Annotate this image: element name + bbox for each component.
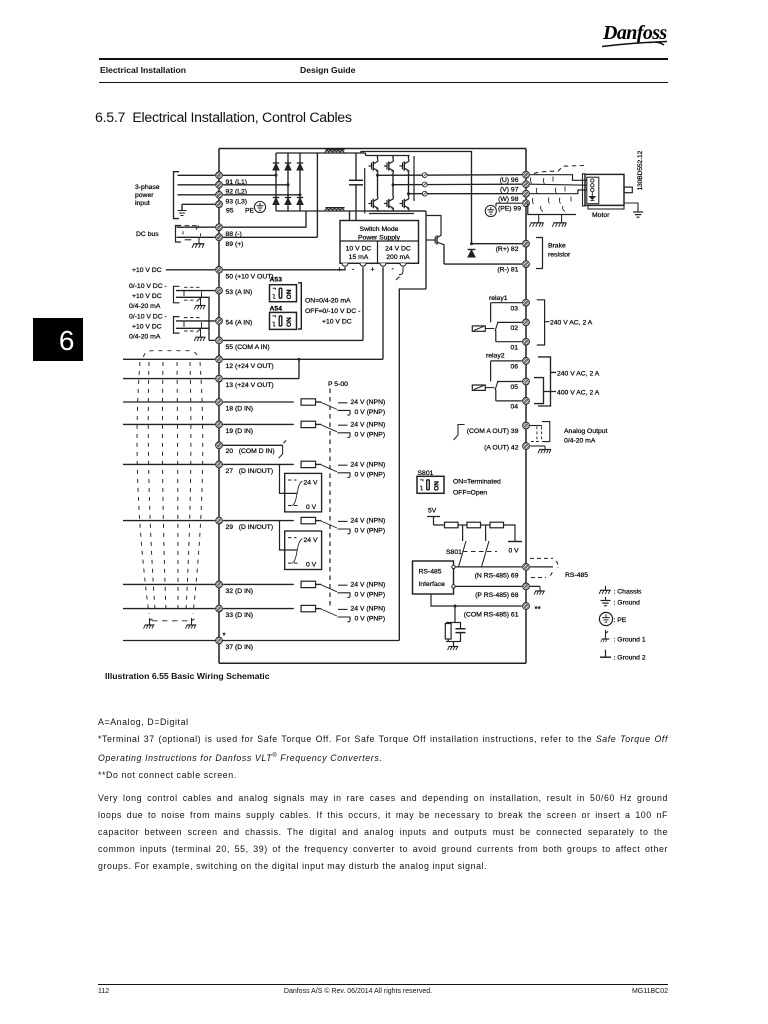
wire 32 to resistor xyxy=(223,583,294,585)
motor cable wire U xyxy=(530,175,587,181)
wire 27 to resistor xyxy=(223,463,294,465)
svg-text:: Ground: : Ground xyxy=(614,600,641,607)
wire 54 return xyxy=(176,327,209,329)
svg-text:0/-10 V DC -: 0/-10 V DC - xyxy=(129,314,167,321)
switch lever S801 a xyxy=(459,541,467,567)
svg-text:DC bus: DC bus xyxy=(136,231,159,238)
Danfoss logo xyxy=(601,19,676,51)
svg-text:24 V (NPN): 24 V (NPN) xyxy=(351,421,386,428)
svg-text:PE: PE xyxy=(245,207,255,214)
S801 dashed link xyxy=(463,551,497,553)
svg-text:: Ground 2: : Ground 2 xyxy=(614,655,646,662)
legend ground2 symbol xyxy=(600,650,611,658)
svg-text:29 (D IN/OUT): 29 (D IN/OUT) xyxy=(226,524,274,531)
legend chassis symbol xyxy=(599,586,611,594)
switch A54 xyxy=(270,312,297,329)
PE symbol at terminal 95 xyxy=(254,201,265,212)
motor ground wire xyxy=(624,203,638,212)
svg-text:15 mA: 15 mA xyxy=(349,254,369,261)
wire 32 resistor to switch xyxy=(316,583,322,585)
svg-text:130BD552.12: 130BD552.12 xyxy=(637,150,644,190)
footer left xyxy=(98,988,109,995)
NPN contact 18 xyxy=(338,402,348,404)
RS-485 cable ground xyxy=(534,586,545,594)
wire 88 xyxy=(177,226,215,228)
terminal 42 xyxy=(523,443,530,450)
hook 20 xyxy=(279,440,287,458)
input bracket xyxy=(174,172,180,219)
row 33: wire left xyxy=(123,608,215,610)
IGBT Q2 xyxy=(384,159,393,173)
svg-text:Power Supply: Power Supply xyxy=(358,234,401,241)
wire 93 to rectifier leg3 xyxy=(223,194,300,196)
tap 2 down xyxy=(485,525,487,541)
caption xyxy=(105,671,270,681)
NPN contact 19 xyxy=(338,424,348,426)
terminal 88 xyxy=(216,224,223,231)
motor terminal dots xyxy=(591,179,594,192)
wire 91 to rectifier leg1 xyxy=(223,174,276,176)
wire 27 resistor to switch xyxy=(316,463,322,465)
stub 29 to pulse box xyxy=(280,521,298,550)
wire 18 resistor to switch xyxy=(316,401,322,403)
wire 05 xyxy=(497,381,522,383)
svg-text:RS-485: RS-485 xyxy=(419,568,442,575)
motor box ground arrow xyxy=(590,192,596,201)
inverter top rail xyxy=(366,153,410,156)
motor ground xyxy=(633,212,643,217)
screen dashes 53 bottom + tail xyxy=(184,299,196,301)
5V tap xyxy=(427,517,445,526)
svg-text:Interface: Interface xyxy=(419,581,446,588)
hook 39 xyxy=(454,425,465,441)
terminal 37 xyxy=(216,637,223,644)
svg-text:RS-485: RS-485 xyxy=(565,572,588,579)
motor cable screen strands xyxy=(530,177,571,212)
svg-text:: Ground 1: : Ground 1 xyxy=(614,637,646,644)
ground on 89 wire xyxy=(192,237,205,248)
terminal 33 xyxy=(216,605,223,612)
chapter tab 6 xyxy=(33,318,83,361)
diagonal tick wire 88 xyxy=(196,226,199,230)
svg-text:50 (+10 V OUT): 50 (+10 V OUT) xyxy=(226,273,274,280)
wire 20 xyxy=(223,444,283,446)
svg-text:02: 02 xyxy=(510,325,518,332)
inverter emitter rail xyxy=(369,213,414,215)
motor cable screen dashed cap xyxy=(534,166,584,174)
svg-text:0 V: 0 V xyxy=(306,504,317,511)
motor PE wire down xyxy=(528,203,576,214)
SMPS box xyxy=(340,221,419,264)
svg-text:0 V (PNP): 0 V (PNP) xyxy=(355,616,386,623)
svg-text:0/4-20 mA: 0/4-20 mA xyxy=(129,334,161,341)
notes block xyxy=(98,714,668,784)
wire 13 left xyxy=(123,378,215,380)
resistor 19 xyxy=(301,421,316,427)
RC ground xyxy=(448,647,459,651)
wire 53 return xyxy=(176,297,209,340)
svg-text:3-phase: 3-phase xyxy=(135,184,160,191)
switch 18 lever xyxy=(321,402,337,409)
wire 33 to resistor xyxy=(223,608,294,610)
switch lever S801 b xyxy=(482,541,490,567)
terminal 20 xyxy=(216,442,223,449)
bundle outline left xyxy=(137,362,149,614)
relay1 bracket xyxy=(537,300,550,345)
wire L3 xyxy=(178,194,215,196)
svg-text:0 V: 0 V xyxy=(509,548,520,555)
motor shaft xyxy=(624,187,632,193)
screen dashes 54 top xyxy=(184,317,200,319)
NPN contact 29 xyxy=(338,520,348,522)
terminal 82 xyxy=(523,240,530,247)
wire L1 xyxy=(178,174,215,176)
svg-text:+: + xyxy=(371,267,375,274)
svg-text:ON=0/4-20 mA: ON=0/4-20 mA xyxy=(305,297,351,304)
terminal 95 xyxy=(216,201,223,208)
24V plus wire to terminal 12 xyxy=(382,267,384,359)
svg-text:33 (D IN): 33 (D IN) xyxy=(226,612,254,619)
analog out screen dashes xyxy=(531,427,542,442)
motor base xyxy=(588,205,624,209)
PNP contact 32 xyxy=(338,593,351,598)
svg-text:(R+) 82: (R+) 82 xyxy=(496,246,519,253)
svg-text:-: - xyxy=(352,267,355,274)
relay2 lever xyxy=(495,382,498,390)
header rule top xyxy=(99,58,668,60)
legend ground symbol xyxy=(601,597,611,606)
paragraph xyxy=(98,790,668,875)
terminal 39 xyxy=(523,422,530,429)
RS-485 external cable wires xyxy=(530,567,553,587)
footer center xyxy=(98,988,618,995)
header rule bottom xyxy=(99,82,668,83)
bundle core 4 xyxy=(186,362,191,610)
svg-text:24 V (NPN): 24 V (NPN) xyxy=(351,581,386,588)
svg-text:0 V (PNP): 0 V (PNP) xyxy=(355,591,386,598)
pulse box 27 xyxy=(285,473,322,512)
rectifier diode D2 xyxy=(285,163,291,170)
wire output W xyxy=(409,193,522,195)
wire 18 to resistor xyxy=(223,401,294,403)
row 37: wire xyxy=(123,640,399,642)
0V bar xyxy=(508,541,522,543)
inverter bottom rail xyxy=(369,210,426,212)
SMPS divider vertical xyxy=(377,241,379,263)
PNP contact 18 xyxy=(338,410,351,415)
inverter right edge xyxy=(413,156,415,201)
junction dots rectifier xyxy=(275,174,302,197)
svg-text:24 V: 24 V xyxy=(304,537,318,544)
footer right xyxy=(98,988,668,995)
wire L2 xyxy=(178,184,215,186)
terminal 91 xyxy=(216,172,223,179)
svg-text:**: ** xyxy=(535,605,541,614)
pulse box 27 contents xyxy=(288,480,303,506)
stub 27 to pulse box xyxy=(280,464,298,493)
wire PE input xyxy=(182,204,215,210)
svg-text:(R-) 81: (R-) 81 xyxy=(497,267,518,274)
svg-text:24 V (NPN): 24 V (NPN) xyxy=(351,399,386,406)
wire 61 from box bottom xyxy=(431,594,522,606)
svg-text:(COM RS-485) 61: (COM RS-485) 61 xyxy=(464,612,519,619)
resistor 29 xyxy=(301,517,316,523)
NPN contact 33 xyxy=(338,608,348,610)
wire res3 to 0V xyxy=(504,525,516,542)
NPN contact 32 xyxy=(338,584,348,586)
switch 32 lever xyxy=(321,585,337,592)
twisted pair ticks DC bus xyxy=(183,231,201,236)
bundle ground left xyxy=(144,618,155,629)
svg-text:relay1: relay1 xyxy=(489,295,508,302)
terminal 61 xyxy=(523,603,530,610)
svg-text:(U) 96: (U) 96 xyxy=(500,177,519,184)
bundle core 2 xyxy=(162,362,166,610)
svg-text:12 (+24 V OUT): 12 (+24 V OUT) xyxy=(226,363,274,370)
connector circle U xyxy=(422,173,427,178)
terminal 01 xyxy=(523,338,530,345)
relay2 outer bracket xyxy=(538,357,556,406)
drive enclosure right bus xyxy=(525,149,527,664)
terminal 19 xyxy=(216,421,223,428)
PE symbol terminal 99 xyxy=(485,205,496,216)
DC+ rail xyxy=(276,152,366,154)
bundle core 3 xyxy=(177,362,178,610)
bundle bottom dashed link xyxy=(152,620,190,622)
10V minus wire to terminal 55 xyxy=(362,267,364,340)
legend ground1 symbol xyxy=(601,630,610,642)
junction dot brake diode top xyxy=(470,242,473,245)
relay2 inner bracket xyxy=(534,378,556,404)
wire 92 to rectifier leg2 xyxy=(223,184,288,186)
SMPS pin bumps xyxy=(342,263,406,266)
analog out wire 42 xyxy=(530,445,545,447)
terminal 96 xyxy=(523,171,530,178)
header left xyxy=(100,65,186,75)
wire 54 signal xyxy=(176,320,215,322)
svg-text:20 (COM D IN): 20 (COM D IN) xyxy=(226,448,275,455)
IGBT Q6 xyxy=(400,197,409,211)
label 3-phase power input xyxy=(135,184,160,207)
footer rule xyxy=(98,984,668,985)
svg-text:0 V (PNP): 0 V (PNP) xyxy=(355,409,386,416)
terminal 29 xyxy=(216,517,223,524)
rectifier leg 1 xyxy=(275,153,277,211)
RS-485 cable screen dashes xyxy=(530,558,558,577)
DC- rail xyxy=(276,210,426,212)
svg-text:A53: A53 xyxy=(270,277,283,284)
dashes above wire 88 xyxy=(185,225,198,227)
svg-text:06: 06 xyxy=(510,364,518,371)
terminal 32 xyxy=(216,581,223,588)
row 27: wire left xyxy=(123,463,215,465)
svg-text:13 (+24 V OUT): 13 (+24 V OUT) xyxy=(226,382,274,389)
screen ground 2 xyxy=(552,215,566,227)
wire 53 signal xyxy=(176,290,215,292)
svg-text:0/-10 V DC -: 0/-10 V DC - xyxy=(129,283,167,290)
terminal 89 xyxy=(216,234,223,241)
resistor 32 xyxy=(301,581,316,587)
IGBT Q3 xyxy=(400,159,409,173)
termination resistor 1 xyxy=(445,522,459,528)
terminal 03 xyxy=(523,299,530,306)
svg-text:95: 95 xyxy=(226,207,234,214)
svg-text:32 (D IN): 32 (D IN) xyxy=(226,588,254,595)
bracket 53 xyxy=(174,286,180,303)
ground 54 xyxy=(194,328,205,341)
terminal 69 xyxy=(523,564,530,571)
inverter phase column U xyxy=(377,156,379,212)
terminal 68 xyxy=(523,583,530,590)
brake resistor bracket xyxy=(536,238,543,269)
screen dashes 53 top xyxy=(184,286,200,288)
svg-text:03: 03 xyxy=(510,305,518,312)
svg-text:(N RS-485) 69: (N RS-485) 69 xyxy=(475,572,519,579)
wire 69 xyxy=(454,566,522,568)
svg-text:(V) 97: (V) 97 xyxy=(500,187,519,194)
terminal 55 xyxy=(216,337,223,344)
terminal 99 xyxy=(523,200,530,207)
svg-text:+10 V DC: +10 V DC xyxy=(322,319,352,326)
bundle outline right xyxy=(193,362,203,614)
0V feed from inverter bottom rail xyxy=(425,211,427,289)
wire PE 99 stub xyxy=(496,203,522,206)
wire 29 resistor to switch xyxy=(316,520,322,522)
wire 55 to SMPS minus xyxy=(223,339,363,341)
svg-text:ON=Terminated: ON=Terminated xyxy=(453,478,501,485)
row 32: wire left xyxy=(123,583,215,585)
brake IGBT Q7 xyxy=(426,233,444,247)
terminal 06 xyxy=(523,358,530,365)
pulse box 29 contents xyxy=(288,538,303,564)
switch 33 lever xyxy=(321,609,337,616)
analog out wire 39 xyxy=(530,425,542,427)
terminal 02 xyxy=(523,319,530,326)
terminal 12 xyxy=(216,356,223,363)
wire 02 xyxy=(497,321,522,323)
svg-text:18 (D IN): 18 (D IN) xyxy=(226,406,254,413)
resistor 27 xyxy=(301,461,316,467)
svg-text:: PE: : PE xyxy=(614,617,627,624)
inverter phase column V xyxy=(392,156,394,212)
terminal 92 xyxy=(216,181,223,188)
svg-text:37 (D IN): 37 (D IN) xyxy=(226,644,254,651)
svg-text:0 V (PNP): 0 V (PNP) xyxy=(355,431,386,438)
dash below wire 89 xyxy=(185,239,192,241)
analog out bracket xyxy=(542,422,550,442)
bracket A53/A54 xyxy=(298,283,301,329)
junction 12/13 jumper xyxy=(298,359,300,378)
svg-text:input: input xyxy=(135,200,150,207)
svg-text:+10 V DC: +10 V DC xyxy=(132,324,162,331)
PNP contact 19 xyxy=(338,433,351,438)
brake IGBT collector xyxy=(426,216,441,234)
termination resistor 2 xyxy=(467,522,481,528)
wire res2-res3 xyxy=(481,524,491,526)
svg-text:OFF=0/-10 V DC -: OFF=0/-10 V DC - xyxy=(305,308,360,315)
svg-text:55 (COM A IN): 55 (COM A IN) xyxy=(226,344,270,351)
DC+ inductor xyxy=(325,150,345,153)
junction dot 61 xyxy=(454,605,457,608)
wire 03 xyxy=(491,303,522,323)
terminal 18 xyxy=(216,399,223,406)
svg-text:: Chassis: : Chassis xyxy=(614,588,643,595)
svg-text:400 V AC, 2 A: 400 V AC, 2 A xyxy=(557,389,600,396)
terminal 81 xyxy=(523,261,530,268)
rectifier diode D3 xyxy=(297,163,303,170)
PNP contact 29 xyxy=(338,529,351,534)
switch A53 xyxy=(270,285,297,302)
legend PE symbol xyxy=(599,612,612,625)
dashed line P5-00 xyxy=(329,389,331,609)
resistor 18 xyxy=(301,399,316,405)
svg-text:Brake: Brake xyxy=(548,243,566,250)
terminal 53 xyxy=(216,287,223,294)
svg-text:+10 V DC: +10 V DC xyxy=(132,267,162,274)
svg-text:relay2: relay2 xyxy=(486,353,505,360)
wire 88 to DC- rail xyxy=(223,211,306,227)
svg-text:+10 V DC: +10 V DC xyxy=(132,293,162,300)
svg-text:24 V: 24 V xyxy=(304,480,318,487)
switch 27 lever xyxy=(321,465,337,472)
wire 29 to resistor xyxy=(223,520,294,522)
svg-text:Analog Output: Analog Output xyxy=(564,428,608,435)
wire output U xyxy=(378,174,522,177)
RC termination network xyxy=(445,606,465,647)
brake diode D7 xyxy=(468,250,476,258)
wire R+ 82 xyxy=(472,243,522,245)
svg-text:5V: 5V xyxy=(428,508,437,515)
svg-text:27 (D IN/OUT): 27 (D IN/OUT) xyxy=(226,468,274,475)
NPN contact 27 xyxy=(338,464,348,466)
terminal 04 xyxy=(523,398,530,405)
DC bus bracket xyxy=(176,226,182,243)
svg-text:P 5-00: P 5-00 xyxy=(328,381,348,388)
relay2 coil xyxy=(472,385,494,390)
resistor 33 xyxy=(301,605,316,611)
motor body xyxy=(585,174,624,205)
wire 04 xyxy=(496,390,522,401)
terminal 13 xyxy=(216,375,223,382)
DC link capacitor xyxy=(349,153,363,211)
junction dots inverter outputs xyxy=(376,174,410,195)
svg-text:240 V AC, 2 A: 240 V AC, 2 A xyxy=(550,320,593,327)
terminal 54 xyxy=(216,318,223,325)
brake IGBT emitter wire xyxy=(443,247,445,264)
ground 53 xyxy=(194,297,205,309)
PNP contact 27 xyxy=(338,473,351,478)
svg-text:(P RS-485) 68: (P RS-485) 68 xyxy=(475,592,519,599)
svg-text:0 V (PNP): 0 V (PNP) xyxy=(355,471,386,478)
row 18: wire left xyxy=(123,401,215,403)
svg-text:(COM A OUT) 39: (COM A OUT) 39 xyxy=(467,428,519,435)
svg-text:(A OUT) 42: (A OUT) 42 xyxy=(484,445,519,452)
svg-text:24 V (NPN): 24 V (NPN) xyxy=(351,461,386,468)
wire output V xyxy=(393,183,522,186)
svg-text:05: 05 xyxy=(510,384,518,391)
svg-text:89 (+): 89 (+) xyxy=(226,241,244,248)
screen ticks 53 xyxy=(184,291,202,297)
DC- inductor xyxy=(325,208,345,211)
connector circle W xyxy=(422,191,427,196)
screen dashes 54 bottom + tail xyxy=(184,330,196,332)
connector circle V xyxy=(422,182,427,187)
svg-text:01: 01 xyxy=(510,344,518,351)
rectifier diode D5 xyxy=(285,198,291,205)
wire 19 resistor to switch xyxy=(316,423,322,425)
svg-text:53 (A IN): 53 (A IN) xyxy=(226,289,253,296)
wire 89 to rectifier column xyxy=(223,236,317,238)
